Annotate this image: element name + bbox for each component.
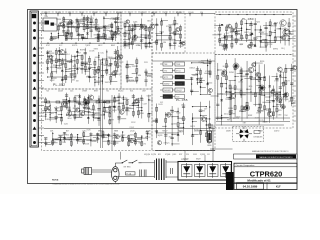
junction N238 <box>129 33 130 34</box>
wire W145 <box>50 116 56 118</box>
resistor R26 <box>112 34 114 38</box>
junction N271 <box>180 42 181 43</box>
junction N226 <box>141 135 142 136</box>
svg-text:R3R0: R3R0 <box>260 61 264 63</box>
wire W198 <box>132 104 138 106</box>
wire W91 <box>59 58 66 60</box>
junction N406 <box>269 96 270 97</box>
svg-text:DM0: DM0 <box>278 115 282 117</box>
wire W375 <box>191 77 193 95</box>
resistor R93 <box>140 24 142 28</box>
junction N210 <box>90 139 91 140</box>
wire W344 <box>269 19 271 48</box>
transistor Q37 <box>222 70 227 75</box>
junction N361 <box>177 111 178 112</box>
wire W355 <box>285 29 290 31</box>
wire W261 <box>124 21 126 49</box>
connector CN1 pin 7 <box>33 72 36 75</box>
wire W351 <box>276 28 280 30</box>
transistor Q15 <box>76 108 80 112</box>
svg-text:RC58: RC58 <box>274 22 278 24</box>
wire W187 <box>119 102 123 104</box>
junction N36 <box>67 27 68 28</box>
wire W12 <box>177 14 179 17</box>
junction N278 <box>219 34 220 35</box>
junction N257 <box>136 73 137 74</box>
junction N364 <box>183 127 184 128</box>
junction N179 <box>133 102 134 103</box>
transistor Q_vert1 <box>259 85 265 91</box>
junction N62 <box>115 22 116 23</box>
svg-text:5TT: 5TT <box>287 80 290 82</box>
junction N24 <box>228 14 229 15</box>
wire W251 <box>135 138 141 140</box>
junction N333 <box>192 106 193 107</box>
svg-text:BK87: BK87 <box>94 91 98 93</box>
junction N342 <box>200 86 201 87</box>
wire W468 <box>279 77 285 79</box>
svg-text:8R5: 8R5 <box>69 62 72 64</box>
junction N359 <box>171 134 172 135</box>
resistor R18 <box>111 24 113 28</box>
resistor R158 <box>258 77 260 81</box>
junction N401 <box>258 104 259 105</box>
capacitor C45 <box>76 139 79 140</box>
wire W419 <box>225 92 230 94</box>
wire W141 <box>41 110 45 112</box>
diode D33 <box>279 75 282 77</box>
wire W249 <box>129 137 136 139</box>
junction N161 <box>93 117 94 118</box>
transistor Q34 <box>208 88 212 92</box>
svg-text:7R4: 7R4 <box>284 115 287 117</box>
svg-text:TODAS LAS RESISTENCIAS SON EN: TODAS LAS RESISTENCIAS SON EN OHM. K=100… <box>52 183 120 186</box>
resistor R113 <box>219 27 221 31</box>
resistor R71 <box>52 141 54 145</box>
capacitor C53 <box>128 43 131 44</box>
wire W183 <box>111 106 115 108</box>
svg-text:RQ1: RQ1 <box>58 68 61 70</box>
wire W306 <box>179 25 181 48</box>
wire W439 <box>254 61 256 106</box>
wire W35 <box>81 18 85 20</box>
capacitor C74 <box>182 106 185 107</box>
junction N39 <box>71 22 72 23</box>
resistor R35 <box>74 73 76 77</box>
junction N67 <box>67 26 68 27</box>
resistor R65 <box>118 106 120 110</box>
wire top supply bus <box>40 13 215 15</box>
transistor Q30 <box>248 45 252 49</box>
resistor R59 <box>92 106 94 110</box>
svg-text:827: 827 <box>280 26 283 28</box>
wire W425 <box>229 79 235 81</box>
wire W110 <box>82 63 87 65</box>
svg-text:8CM4: 8CM4 <box>57 110 62 112</box>
transistor Q_chroma3 <box>221 71 226 76</box>
capacitor C65 <box>191 135 194 136</box>
capacitor C84 <box>282 106 285 107</box>
wire W206 <box>67 114 105 116</box>
connector header JP3 <box>163 69 173 73</box>
svg-text:Q7435: Q7435 <box>238 81 243 83</box>
wire W26 <box>67 22 72 24</box>
wire W240 <box>102 140 108 142</box>
junction N148 <box>69 100 70 101</box>
junction N404 <box>264 77 265 78</box>
wire W342 <box>260 46 267 48</box>
wire W343 <box>262 39 266 41</box>
resistor R107 <box>169 27 171 31</box>
svg-text:1158: 1158 <box>59 103 63 105</box>
wire W268 <box>132 38 136 40</box>
diode D26 <box>196 78 199 80</box>
connector CN1 pin 1 <box>33 22 36 25</box>
capacitor C11 <box>81 37 84 38</box>
svg-text:55KK: 55KK <box>147 95 152 97</box>
junction N396 <box>250 78 251 79</box>
svg-text:25Q: 25Q <box>219 93 223 95</box>
resistor R79 <box>113 141 115 145</box>
resistor R13 <box>95 19 97 23</box>
svg-text:2KD: 2KD <box>222 49 226 51</box>
resistor R159 <box>258 108 260 112</box>
resistor R94 <box>145 27 147 31</box>
junction N191 <box>118 100 119 101</box>
resistor R3 <box>63 24 65 28</box>
junction N420 <box>217 93 218 94</box>
junction N127 <box>115 57 116 58</box>
wire W119 <box>95 81 100 83</box>
wire W423 <box>231 113 235 115</box>
svg-text:C22D8: C22D8 <box>267 44 272 46</box>
junction N283 <box>231 38 232 39</box>
svg-text:3CC71: 3CC71 <box>233 118 239 120</box>
wire W147 <box>50 112 56 114</box>
wire W130 <box>111 81 118 83</box>
transistor Q5 <box>117 31 121 35</box>
diode D24 <box>259 29 262 31</box>
wire W334 <box>246 34 251 36</box>
junction N337 <box>191 83 192 84</box>
wire W113 <box>85 70 89 72</box>
junction N290 <box>246 23 247 24</box>
wire W142 <box>39 115 46 117</box>
svg-text:NOTA:: NOTA: <box>52 179 59 182</box>
svg-text:433M2: 433M2 <box>51 142 56 144</box>
junction N190 <box>84 100 85 101</box>
junction N42 <box>78 34 79 35</box>
capacitor C_sec <box>171 168 173 174</box>
wire W175 <box>99 101 106 103</box>
wire W80 <box>66 38 112 40</box>
wire W395 <box>165 112 167 145</box>
wire W470 <box>292 102 296 104</box>
wire W274 <box>141 34 146 36</box>
junction N360 <box>171 143 172 144</box>
connector CN1 pin 2 <box>33 29 36 32</box>
junction N286 <box>236 33 237 34</box>
wire CN1 pin 14 stub <box>38 127 44 129</box>
junction N3 <box>69 13 70 14</box>
wire W44 <box>96 28 102 30</box>
junction N330 <box>209 106 210 107</box>
resistor R72 <box>59 141 61 145</box>
transistor Q_hout1 <box>280 20 286 26</box>
wire W144 <box>43 112 50 114</box>
junction N255 <box>126 64 127 65</box>
resistor R8 <box>83 17 85 21</box>
junction N117 <box>98 56 99 57</box>
title block divider 2 <box>234 176 297 178</box>
resistor R31 <box>55 59 57 63</box>
wire W374 <box>193 117 207 119</box>
svg-text:TB8: TB8 <box>164 64 167 66</box>
junction N419 <box>291 68 292 69</box>
diode D10 <box>88 76 91 78</box>
connector CN1 pin 10 <box>33 97 36 100</box>
wire W94 <box>62 79 67 81</box>
wire W340 <box>256 36 261 38</box>
junction N351 <box>209 94 210 95</box>
wire W426 <box>235 76 239 78</box>
wire mains cable b <box>92 171 112 173</box>
resistor R135 <box>209 124 211 128</box>
junction N312 <box>284 38 285 39</box>
wire W7 <box>117 14 119 17</box>
transistor Q_sync2 <box>267 111 272 116</box>
wire W11 <box>165 14 167 17</box>
wire W139 <box>48 76 72 78</box>
junction N33 <box>58 35 59 36</box>
resistor R106 <box>161 43 163 47</box>
diode D5 <box>58 50 61 52</box>
junction N124 <box>106 70 107 71</box>
svg-text:3MM8: 3MM8 <box>262 122 267 124</box>
wire W109 <box>82 62 88 64</box>
wire W191 <box>126 99 128 116</box>
diode D32 <box>268 85 271 87</box>
wire W37 <box>84 18 88 20</box>
electrolytic capacitor C_main filter <box>208 131 212 142</box>
junction N382 <box>230 98 231 99</box>
module PL-052 outline (lower section) <box>42 89 153 151</box>
wire W235 <box>102 132 104 139</box>
capacitor C69 <box>196 69 199 70</box>
diode D29 <box>177 134 180 136</box>
wire W181 <box>110 119 114 121</box>
rectifier board outline <box>178 162 232 181</box>
wire W152 <box>66 93 68 110</box>
wire W277 <box>142 36 146 38</box>
resistor R104 <box>156 40 158 44</box>
resistor R22 <box>65 37 67 41</box>
diode D22 <box>223 36 226 38</box>
wire W456 <box>273 105 278 107</box>
svg-text:MCD: MCD <box>218 34 223 36</box>
svg-text:5D0: 5D0 <box>200 12 203 14</box>
junction N173 <box>123 97 124 98</box>
wire W57 <box>115 17 117 41</box>
wire W18 <box>63 16 65 35</box>
wire W125 <box>98 59 102 61</box>
svg-text:03QQM: 03QQM <box>144 154 151 156</box>
wire CN1 pin 11 stub <box>38 105 44 107</box>
capacitor C_line1 <box>140 170 142 177</box>
wire W117 <box>94 59 96 87</box>
wire JP5 lead <box>160 76 163 78</box>
junction N149 <box>69 100 70 101</box>
resistor R6 <box>76 27 78 31</box>
wire W169 <box>84 102 89 104</box>
connector header JP10 <box>175 88 185 92</box>
junction N94 <box>65 52 66 53</box>
capacitor C68 <box>190 90 193 91</box>
connector CN1 pin 6 <box>33 62 36 65</box>
wire W193 <box>127 107 134 109</box>
junction N119 <box>102 62 103 63</box>
svg-text:D2M1: D2M1 <box>229 72 234 74</box>
bridge rectifier diode D103 <box>208 163 219 178</box>
junction N146 <box>66 102 67 103</box>
wire W471 <box>284 68 291 70</box>
svg-text:3MTTT: 3MTTT <box>94 113 99 115</box>
wire W356 <box>288 18 290 46</box>
wire W327 <box>237 28 242 30</box>
capacitor C32 <box>113 106 116 107</box>
resistor R81 <box>128 136 130 140</box>
wire W428 <box>241 94 246 96</box>
wire W244 <box>122 131 124 142</box>
wire W462 <box>274 91 281 93</box>
wire W360 <box>261 41 275 43</box>
junction N214 <box>102 137 103 138</box>
junction N262 <box>156 42 157 43</box>
wire W413 <box>222 116 229 118</box>
svg-text:T8M: T8M <box>147 35 151 37</box>
wire vertical drop x112 <box>111 95 113 150</box>
transistor Q4 <box>113 32 117 36</box>
connector header JP5 <box>163 75 173 79</box>
wire W394 <box>153 120 157 122</box>
junction N266 <box>161 33 162 34</box>
junction N357 <box>165 114 166 115</box>
wire W303 <box>174 17 176 50</box>
resistor R85 <box>141 142 143 146</box>
resistor R50 <box>117 64 119 68</box>
wire W402 <box>178 117 183 119</box>
junction N298 <box>260 36 261 37</box>
resistor R148 <box>229 85 231 89</box>
wire W229 <box>90 132 92 146</box>
wire W59 <box>116 22 120 24</box>
wire W392 <box>156 104 158 139</box>
resistor R133 <box>200 131 202 135</box>
wire W350 <box>279 27 281 44</box>
junction N209 <box>90 140 91 141</box>
capacitor C34 <box>117 116 120 117</box>
junction N163 <box>98 102 99 103</box>
wire W269 <box>125 30 132 32</box>
diode D21 <box>169 43 172 45</box>
wire W67 <box>51 36 57 38</box>
junction N270 <box>174 34 175 35</box>
wire W167 <box>87 94 89 123</box>
junction N57 <box>105 36 106 37</box>
wire W312 <box>214 25 220 27</box>
junction N101 <box>74 64 75 65</box>
wire W140 <box>45 97 47 120</box>
junction N216 <box>108 141 109 142</box>
svg-text:TR41: TR41 <box>176 64 180 66</box>
capacitor C51 <box>113 134 116 135</box>
wire CN1 pin 4 stub <box>38 47 44 49</box>
wire W197 <box>137 98 139 118</box>
junction N263 <box>156 24 157 25</box>
resistor R30 <box>55 50 57 54</box>
junction N237 <box>124 43 125 44</box>
wire W330 <box>247 28 251 30</box>
junction N175 <box>123 102 124 103</box>
junction N260 <box>126 80 127 81</box>
junction N274 <box>174 39 175 40</box>
resistor R48 <box>114 71 116 75</box>
wire W82 <box>48 55 54 57</box>
junction N340 <box>197 74 198 75</box>
capacitor C25 <box>78 103 81 104</box>
wire W291 <box>146 74 153 76</box>
junction N55 <box>103 29 104 30</box>
junction N44 <box>83 23 84 24</box>
svg-text:5T7: 5T7 <box>195 74 198 76</box>
junction N156 <box>84 99 85 100</box>
svg-text:M50: M50 <box>249 25 253 27</box>
svg-text:2C1T: 2C1T <box>255 117 259 119</box>
resistor R136 <box>200 70 202 74</box>
wire JP1 lead <box>160 63 163 65</box>
wire W230 <box>86 139 91 141</box>
svg-text:B007D: B007D <box>58 135 64 137</box>
capacitor C86 <box>290 83 293 84</box>
wire W72 <box>83 37 88 39</box>
junction N395 <box>250 79 251 80</box>
resistor R24 <box>97 34 99 38</box>
resistor R160 <box>259 91 261 95</box>
resistor R66 <box>122 105 124 109</box>
wire W338 <box>260 26 262 48</box>
junction N398 <box>255 62 256 63</box>
junction N346 <box>207 82 208 83</box>
junction N16 <box>61 43 62 44</box>
wire W180 <box>104 112 110 114</box>
svg-text:Q0084: Q0084 <box>173 24 179 26</box>
junction N399 <box>255 77 256 78</box>
wire CN1 pin 12 stub <box>38 112 44 114</box>
junction N233 <box>90 139 91 140</box>
svg-text:D4TKM: D4TKM <box>198 111 205 113</box>
wire W472 <box>218 93 281 95</box>
junction N332 <box>209 127 210 128</box>
wire W168 <box>88 111 93 113</box>
junction N326 <box>200 115 201 116</box>
transistor Q40 <box>256 72 261 77</box>
junction N17 <box>75 43 76 44</box>
resistor R164 <box>269 109 271 113</box>
wire W379 <box>191 74 197 76</box>
resistor R149 <box>229 111 231 115</box>
svg-text:8413: 8413 <box>112 110 116 112</box>
wire right h-rail 1 <box>216 117 290 119</box>
